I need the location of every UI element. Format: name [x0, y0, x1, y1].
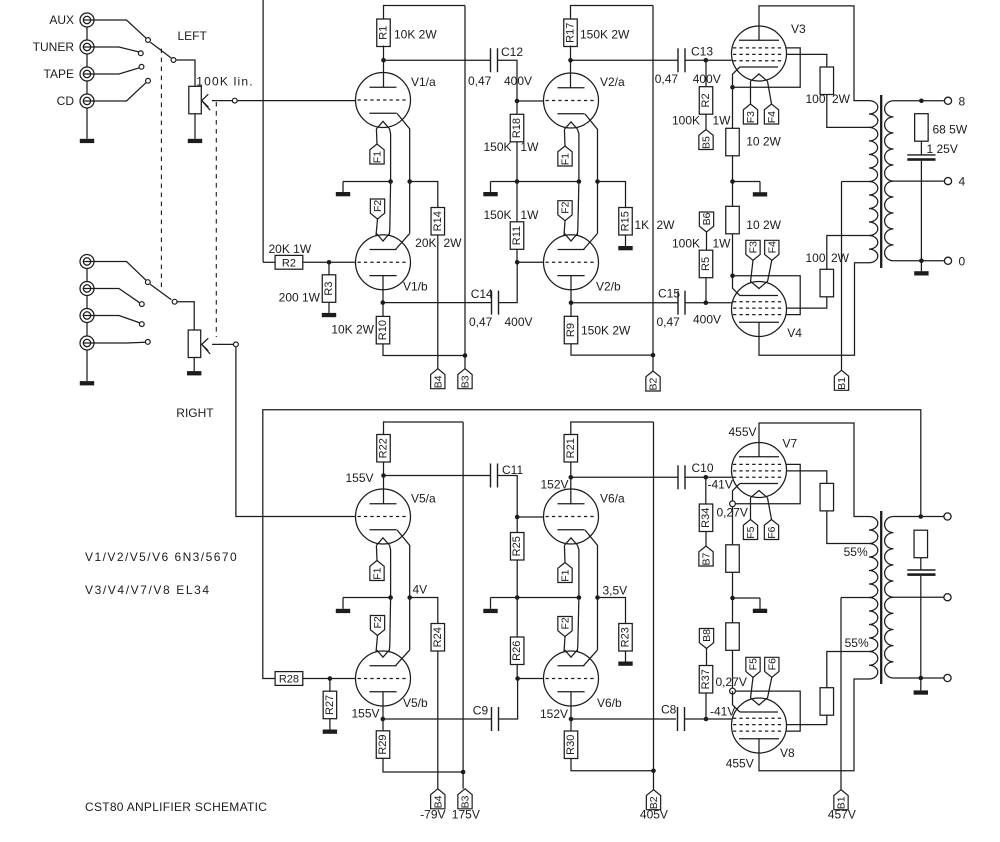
wire cathode node to C8	[571, 718, 676, 720]
wire 10R to center node	[732, 156, 734, 207]
svg-text:455V: 455V	[728, 425, 756, 439]
wire grid node to V6/b	[518, 678, 544, 680]
flag B2 supply 405V left	[646, 371, 660, 391]
svg-text:R15: R15	[620, 211, 632, 231]
wire cathode node to C9	[383, 718, 492, 720]
flag B6 bias supply	[699, 212, 713, 232]
svg-text:C9: C9	[473, 704, 489, 718]
svg-text:10 2W: 10 2W	[746, 135, 781, 149]
wire 100R to transformer tap v7	[827, 511, 869, 544]
wire C11 to V6/a grid node	[498, 476, 518, 518]
wire C10 node to R34	[705, 477, 707, 504]
wire 100R to transformer tap v4	[827, 236, 869, 270]
input jack right 1	[80, 255, 94, 269]
terminal speaker right bottom	[944, 674, 951, 681]
svg-text:3,5V: 3,5V	[603, 584, 628, 598]
wire R2 to B5	[705, 114, 707, 129]
flag F4 heater V4	[765, 240, 779, 260]
wire secondary 4 ohm tap	[893, 180, 944, 182]
wire R18 top	[516, 101, 518, 114]
wire V1/b cathode down	[382, 276, 384, 317]
flag F1 heater V6	[558, 563, 572, 583]
svg-text:155V: 155V	[351, 707, 379, 721]
transformer T1 core	[880, 95, 882, 268]
capacitor 1uF 25V zobel	[907, 154, 935, 156]
wire V4 cathode	[733, 276, 740, 296]
svg-text:150K: 150K	[483, 140, 511, 154]
wire V2/a heater to F1	[563, 129, 566, 146]
ground input jacks right	[86, 350, 88, 381]
dashed link pot ganging	[215, 102, 217, 337]
svg-text:4V: 4V	[413, 583, 428, 597]
svg-text:R28: R28	[279, 674, 299, 686]
svg-text:F3: F3	[745, 111, 757, 123]
wire CD to switch contact 4	[94, 82, 146, 101]
probe node V7 cathode 0,27V	[730, 501, 736, 507]
transformer T1 primary upper	[869, 101, 878, 128]
svg-text:R11: R11	[511, 226, 523, 245]
terminal 8 ohm	[944, 97, 951, 104]
svg-text:457V: 457V	[828, 807, 856, 821]
triode V6/a	[544, 489, 599, 545]
wire plate node to C11	[384, 475, 491, 477]
svg-text:2W: 2W	[657, 218, 676, 232]
wire V8 cathode	[733, 691, 740, 712]
wire F2 to V1/b heater	[376, 219, 378, 236]
flag B1 supply 457V left	[834, 370, 848, 390]
input jack CD (J4)	[80, 94, 94, 108]
wire cathode node to C15	[571, 302, 678, 304]
wire SRPP node to R24	[410, 598, 438, 624]
pentode V3 EL34	[732, 26, 787, 81]
wire C14 to V2/b grid node	[499, 262, 518, 302]
pentode V8 EL34	[732, 698, 787, 753]
wire zobel cap down right	[920, 576, 922, 678]
svg-text:100: 100	[805, 251, 825, 265]
wire V7 heater to F5	[750, 498, 752, 520]
wire grid node to V6/a	[517, 516, 543, 518]
svg-text:F6: F6	[766, 658, 778, 670]
svg-text:1 25V: 1 25V	[927, 142, 958, 156]
B3 supply rail left channel	[464, 6, 466, 369]
resistor R3 200 1W	[322, 275, 336, 303]
svg-text:V3: V3	[791, 22, 806, 36]
svg-text:R3: R3	[323, 282, 335, 296]
svg-text:B2: B2	[648, 378, 660, 391]
svg-text:R14: R14	[432, 211, 444, 231]
wire plate node to C12	[384, 59, 491, 61]
input jack right 2	[80, 282, 94, 296]
wire V7 g3 to cathode	[735, 464, 800, 503]
pentode V4 EL34	[732, 281, 787, 336]
capacitor zobel right	[907, 569, 935, 571]
svg-text:R26: R26	[511, 641, 523, 661]
flag F2 heater V6b	[558, 617, 572, 637]
node SRPP V2	[595, 179, 600, 184]
ground secondary right	[920, 678, 922, 690]
node B3 rail R10	[463, 353, 468, 358]
flag B5 bias supply	[699, 130, 713, 150]
wire V8 plate to transformer	[759, 679, 869, 771]
dashed link switch ganging	[160, 49, 162, 292]
node zobel top right	[919, 514, 924, 519]
node V4 cathode	[730, 274, 735, 279]
wire 10R to V4 cathode	[732, 234, 734, 276]
pot wiper arrow left	[212, 100, 232, 102]
wire plate node to C13	[571, 59, 679, 61]
wire R5 to C15 node	[705, 278, 707, 303]
selector switch blade right (S1b)	[150, 284, 171, 300]
node cathode resistors right	[730, 596, 735, 601]
flag B2 supply right	[646, 790, 660, 810]
wire F2 to V6/b heater	[564, 637, 565, 653]
input jack TAPE (J3)	[80, 67, 94, 81]
svg-text:F3: F3	[748, 241, 760, 253]
flag B3 supply right	[458, 789, 472, 809]
transformer T1 primary lower	[869, 182, 878, 236]
wire V6/a cathode to SRPP node	[585, 530, 598, 650]
resistor 68 5W zobel	[915, 114, 929, 142]
svg-text:F2: F2	[372, 200, 384, 212]
wire secondary 8 ohm tap	[893, 100, 944, 102]
wire AUX to switch contact 1	[94, 20, 146, 38]
svg-text:R27: R27	[324, 695, 336, 715]
wire V3 heater to F4	[768, 81, 772, 104]
svg-text:8: 8	[959, 94, 966, 108]
svg-text:F1: F1	[372, 151, 384, 163]
resistor zobel right	[914, 530, 928, 558]
capacitor C9 0,47uF	[491, 707, 493, 731]
svg-text:C13: C13	[691, 45, 713, 59]
wire SRPP node to R14	[410, 182, 438, 208]
node V6/a grid	[515, 515, 520, 520]
svg-text:B7: B7	[701, 553, 713, 566]
svg-text:R2: R2	[700, 93, 712, 107]
flag F1 heater V1	[370, 144, 384, 164]
svg-text:R29: R29	[377, 734, 389, 754]
wire V7 g2 to 100R	[787, 471, 827, 484]
node V1/b grid junction	[327, 260, 332, 265]
wire V7 plate to transformer	[759, 423, 869, 517]
wire plate node to C10	[571, 476, 678, 478]
switch contact 2 (left)	[138, 51, 143, 56]
svg-text:V1/b: V1/b	[403, 280, 428, 294]
wire TUNER to switch contact 2	[94, 47, 139, 52]
svg-text:F2: F2	[560, 617, 572, 629]
resistor 10 2W cathode v4	[726, 206, 740, 234]
flag F2 heater V2b	[558, 201, 572, 221]
svg-text:R23: R23	[620, 627, 632, 647]
capacitor C12 0,47uF 400V	[490, 48, 492, 72]
svg-text:-41V: -41V	[708, 478, 733, 492]
svg-text:LEFT: LEFT	[178, 29, 208, 43]
svg-text:400V: 400V	[693, 72, 721, 86]
svg-text:2W: 2W	[831, 251, 850, 265]
resistor 10R cathode v7	[726, 545, 740, 573]
flag F3 heater V3	[743, 104, 757, 124]
transformer T2 primary upper	[869, 517, 878, 544]
wire B6 to R5	[706, 232, 708, 250]
resistor R1 10K 2W	[377, 19, 391, 47]
svg-text:150K 2W: 150K 2W	[580, 28, 630, 42]
resistor R23	[619, 624, 633, 652]
node C8 R37 junction	[704, 717, 709, 722]
wire R10 to B3 rail	[383, 344, 465, 356]
svg-text:CD: CD	[57, 94, 75, 108]
svg-text:100: 100	[805, 92, 825, 106]
B2 supply rail left channel	[652, 6, 654, 372]
wire pot wiper to V5/a grid	[236, 347, 356, 516]
wire V4 heater to F3	[751, 260, 754, 282]
triode V5/b	[356, 650, 411, 706]
svg-text:R34: R34	[700, 508, 712, 528]
svg-text:20K: 20K	[415, 236, 436, 250]
svg-text:C15: C15	[658, 287, 680, 301]
svg-text:0,47: 0,47	[657, 315, 681, 329]
resistor R29	[376, 731, 390, 759]
node V6/b cathode	[569, 717, 574, 722]
wire V4 heater to F4	[768, 260, 772, 282]
capacitor C13 0,47uF 400V	[677, 48, 679, 72]
node V2/b cathode	[569, 300, 574, 305]
resistor R28 feedback	[275, 672, 303, 686]
svg-text:0,47: 0,47	[468, 74, 492, 88]
switch contact 4 right	[145, 340, 150, 345]
node C10 R34 junction	[704, 475, 709, 480]
svg-text:R1: R1	[378, 26, 390, 40]
svg-text:F2: F2	[560, 201, 572, 213]
wire zobel cap to 0 terminal	[920, 161, 922, 261]
node V5/b grid	[328, 676, 333, 681]
svg-text:F5: F5	[748, 658, 760, 670]
svg-text:R37: R37	[700, 669, 712, 689]
feedback wire left channel	[262, 0, 264, 262]
resistor 100R v7 screen	[820, 483, 834, 511]
wire R27 top	[329, 679, 331, 692]
wire V2/b cathode down	[570, 276, 572, 317]
svg-text:R2: R2	[282, 258, 296, 270]
wire V7 cathode	[733, 484, 740, 545]
resistor R34 grid v7	[699, 504, 713, 532]
wire C12 to V2/a grid node	[498, 60, 518, 101]
svg-text:0,47: 0,47	[469, 315, 493, 329]
node cathode resistors left	[730, 179, 735, 184]
wire R26 to V6/b grid node	[516, 665, 518, 679]
input jack TUNER (J2)	[80, 40, 94, 54]
svg-text:V8: V8	[780, 746, 795, 760]
svg-text:10K 2W: 10K 2W	[394, 28, 437, 42]
svg-text:400V: 400V	[693, 313, 721, 327]
switch common contact right	[172, 299, 177, 304]
wire V2/a cathode to SRPP node	[585, 114, 598, 233]
heater return wire V1	[389, 129, 391, 236]
wire zobel resistor to cap	[920, 141, 922, 155]
resistor 100R v8 screen	[820, 688, 834, 716]
wire SRPP node to R15	[598, 182, 626, 208]
wire R11 to V2/b grid node	[516, 249, 518, 262]
resistor R9 150K 2W	[564, 316, 578, 344]
svg-text:V1/a: V1/a	[411, 75, 436, 89]
svg-text:R22: R22	[378, 438, 390, 458]
pot wiper arrow right	[212, 343, 234, 345]
wire V6/b cathode down	[570, 692, 572, 731]
wire secondary 0 tap	[893, 260, 944, 262]
heater return wire V2	[577, 129, 579, 235]
wire R34 to B7	[705, 532, 707, 547]
wire C13 node to R2	[705, 60, 707, 86]
wire C8 to V8 grid	[685, 718, 732, 720]
wire B1 center tap right	[841, 597, 869, 599]
svg-text:100K lin.: 100K lin.	[196, 75, 254, 89]
wire R9 to B2 rail	[571, 344, 653, 355]
resistor R14 20K 2W	[431, 208, 445, 236]
B2 supply rail right channel	[653, 422, 655, 790]
node secondary bottom right	[919, 676, 924, 681]
wire R1 bottom to V1/a plate	[383, 46, 385, 88]
svg-text:R17: R17	[565, 23, 577, 43]
wire R30 to B2 rail right	[571, 759, 654, 771]
B3 supply rail right channel	[462, 422, 464, 789]
wire V3 g3 to cathode	[733, 48, 801, 87]
triode V1/a	[356, 73, 411, 129]
transformer T1 secondary	[885, 101, 894, 181]
switch contact 3 right	[139, 322, 144, 327]
svg-text:155V: 155V	[345, 471, 373, 485]
wire C13 to V3 grid	[685, 59, 732, 61]
switch contact 4 (left)	[146, 78, 151, 83]
feedback wire right channel	[263, 410, 921, 679]
ground segment heater V5	[342, 598, 344, 609]
ground pot right	[193, 358, 195, 372]
wire jack1 to switch contact right	[94, 262, 146, 281]
svg-text:R5: R5	[700, 257, 712, 271]
node V1/b cathode	[381, 300, 386, 305]
input jack AUX (J1)	[80, 13, 94, 27]
svg-text:B8: B8	[701, 629, 713, 642]
node heater V6	[577, 595, 582, 600]
node R25 R26 ground	[515, 595, 520, 600]
node V3 cathode	[730, 85, 735, 90]
svg-text:10 2W: 10 2W	[746, 218, 781, 232]
svg-text:100K: 100K	[672, 113, 700, 127]
terminal 0 ohm	[944, 257, 951, 264]
wire R17 bottom to V2/a plate	[570, 46, 572, 88]
resistor R25	[510, 533, 524, 561]
node R18 R11 ground	[515, 179, 520, 184]
wire R18 to ground node	[516, 142, 518, 182]
node C15 R5 junction	[704, 300, 709, 305]
wire R21 bottom to V6/a plate	[570, 462, 572, 504]
wire V1/b plate diagonal	[396, 233, 410, 249]
svg-text:55%: 55%	[844, 545, 868, 559]
wire jack4 to switch contact right	[94, 341, 145, 344]
ground segment heater V6	[490, 598, 492, 609]
wire R29 to B3 rail right	[383, 758, 463, 772]
resistor R22 10K 2W	[377, 435, 391, 463]
resistor 100 2W v4 screen	[820, 269, 834, 297]
svg-text:B3: B3	[460, 375, 472, 388]
svg-text:AUX: AUX	[49, 13, 74, 27]
svg-text:V5/b: V5/b	[403, 696, 428, 710]
node secondary 0	[919, 259, 924, 264]
wire V2/b plate diagonal	[584, 233, 598, 249]
node C13 R2 junction	[704, 58, 709, 63]
node B2 rail R30	[651, 769, 656, 774]
node V5/b cathode	[381, 717, 386, 722]
svg-text:F6: F6	[766, 526, 778, 538]
wire 100R to transformer tap v8	[827, 652, 869, 688]
svg-text:R9: R9	[565, 323, 577, 337]
ground cathode resistors left	[733, 181, 761, 183]
wire secondary bottom tap right	[893, 677, 944, 679]
wire C9 to V6/b grid node	[499, 679, 518, 720]
wire C15 to V4 grid	[685, 302, 732, 304]
svg-text:1W: 1W	[520, 208, 539, 222]
flag B4 supply -79V left	[431, 369, 445, 389]
wire jack2 to switch contact right	[94, 289, 140, 303]
input jack right 4	[80, 336, 94, 350]
probe node V8 cathode 0,27V	[730, 688, 736, 694]
switch common contact left	[171, 58, 176, 63]
ground segment heater V1	[342, 182, 344, 193]
svg-text:1W: 1W	[713, 236, 732, 250]
heater return wire V6	[577, 545, 579, 652]
svg-text:TAPE: TAPE	[44, 67, 74, 81]
node V2/a plate	[568, 58, 573, 63]
svg-text:V6/b: V6/b	[597, 696, 622, 710]
svg-text:F4: F4	[766, 241, 778, 253]
capacitor C10 0,47uF	[677, 465, 679, 489]
svg-text:F1: F1	[560, 153, 572, 165]
svg-text:455V: 455V	[726, 757, 754, 771]
wire R3 top	[328, 262, 330, 275]
svg-text:C10: C10	[692, 461, 714, 475]
svg-text:100K: 100K	[672, 236, 700, 250]
wire R2 to V1/b grid	[303, 261, 356, 263]
svg-text:175V: 175V	[452, 807, 480, 821]
svg-text:2W: 2W	[832, 92, 851, 106]
svg-text:B6: B6	[701, 212, 713, 225]
flag F6 heater V7	[764, 520, 778, 540]
resistor R37 grid v8	[699, 666, 713, 694]
wire R25 to ground node	[516, 560, 518, 598]
resistor R27	[323, 691, 337, 719]
wire R11 top	[516, 182, 518, 222]
flag F2 heater V1b	[370, 199, 384, 219]
switch contact 1 (left)	[146, 38, 151, 43]
node heater V1	[388, 179, 393, 184]
svg-text:F2: F2	[372, 616, 384, 628]
resistor R11 150K 1W	[510, 222, 524, 250]
wire V1/a heater to F1	[375, 129, 378, 144]
wire V7 heater to F6	[768, 498, 772, 520]
resistor 100 2W v3 screen	[820, 67, 834, 95]
wire V5/b cathode down	[382, 692, 384, 731]
svg-text:150K: 150K	[483, 208, 511, 222]
svg-text:C8: C8	[661, 703, 677, 717]
svg-text:200 1W: 200 1W	[279, 291, 321, 305]
wire V4 g3 to cathode	[733, 276, 801, 315]
svg-text:V6/a: V6/a	[600, 492, 625, 506]
wire V8 g2 to 100R	[787, 715, 827, 724]
svg-text:1W: 1W	[713, 113, 732, 127]
wire R22 top to B3 rail right	[384, 422, 464, 435]
resistor R2 grid 100K 1W v3	[699, 87, 713, 115]
terminal speaker right middle	[944, 594, 951, 601]
svg-text:R10: R10	[377, 320, 389, 340]
wire R37 to C8 node	[705, 693, 707, 719]
wire secondary middle tap right	[893, 596, 944, 598]
